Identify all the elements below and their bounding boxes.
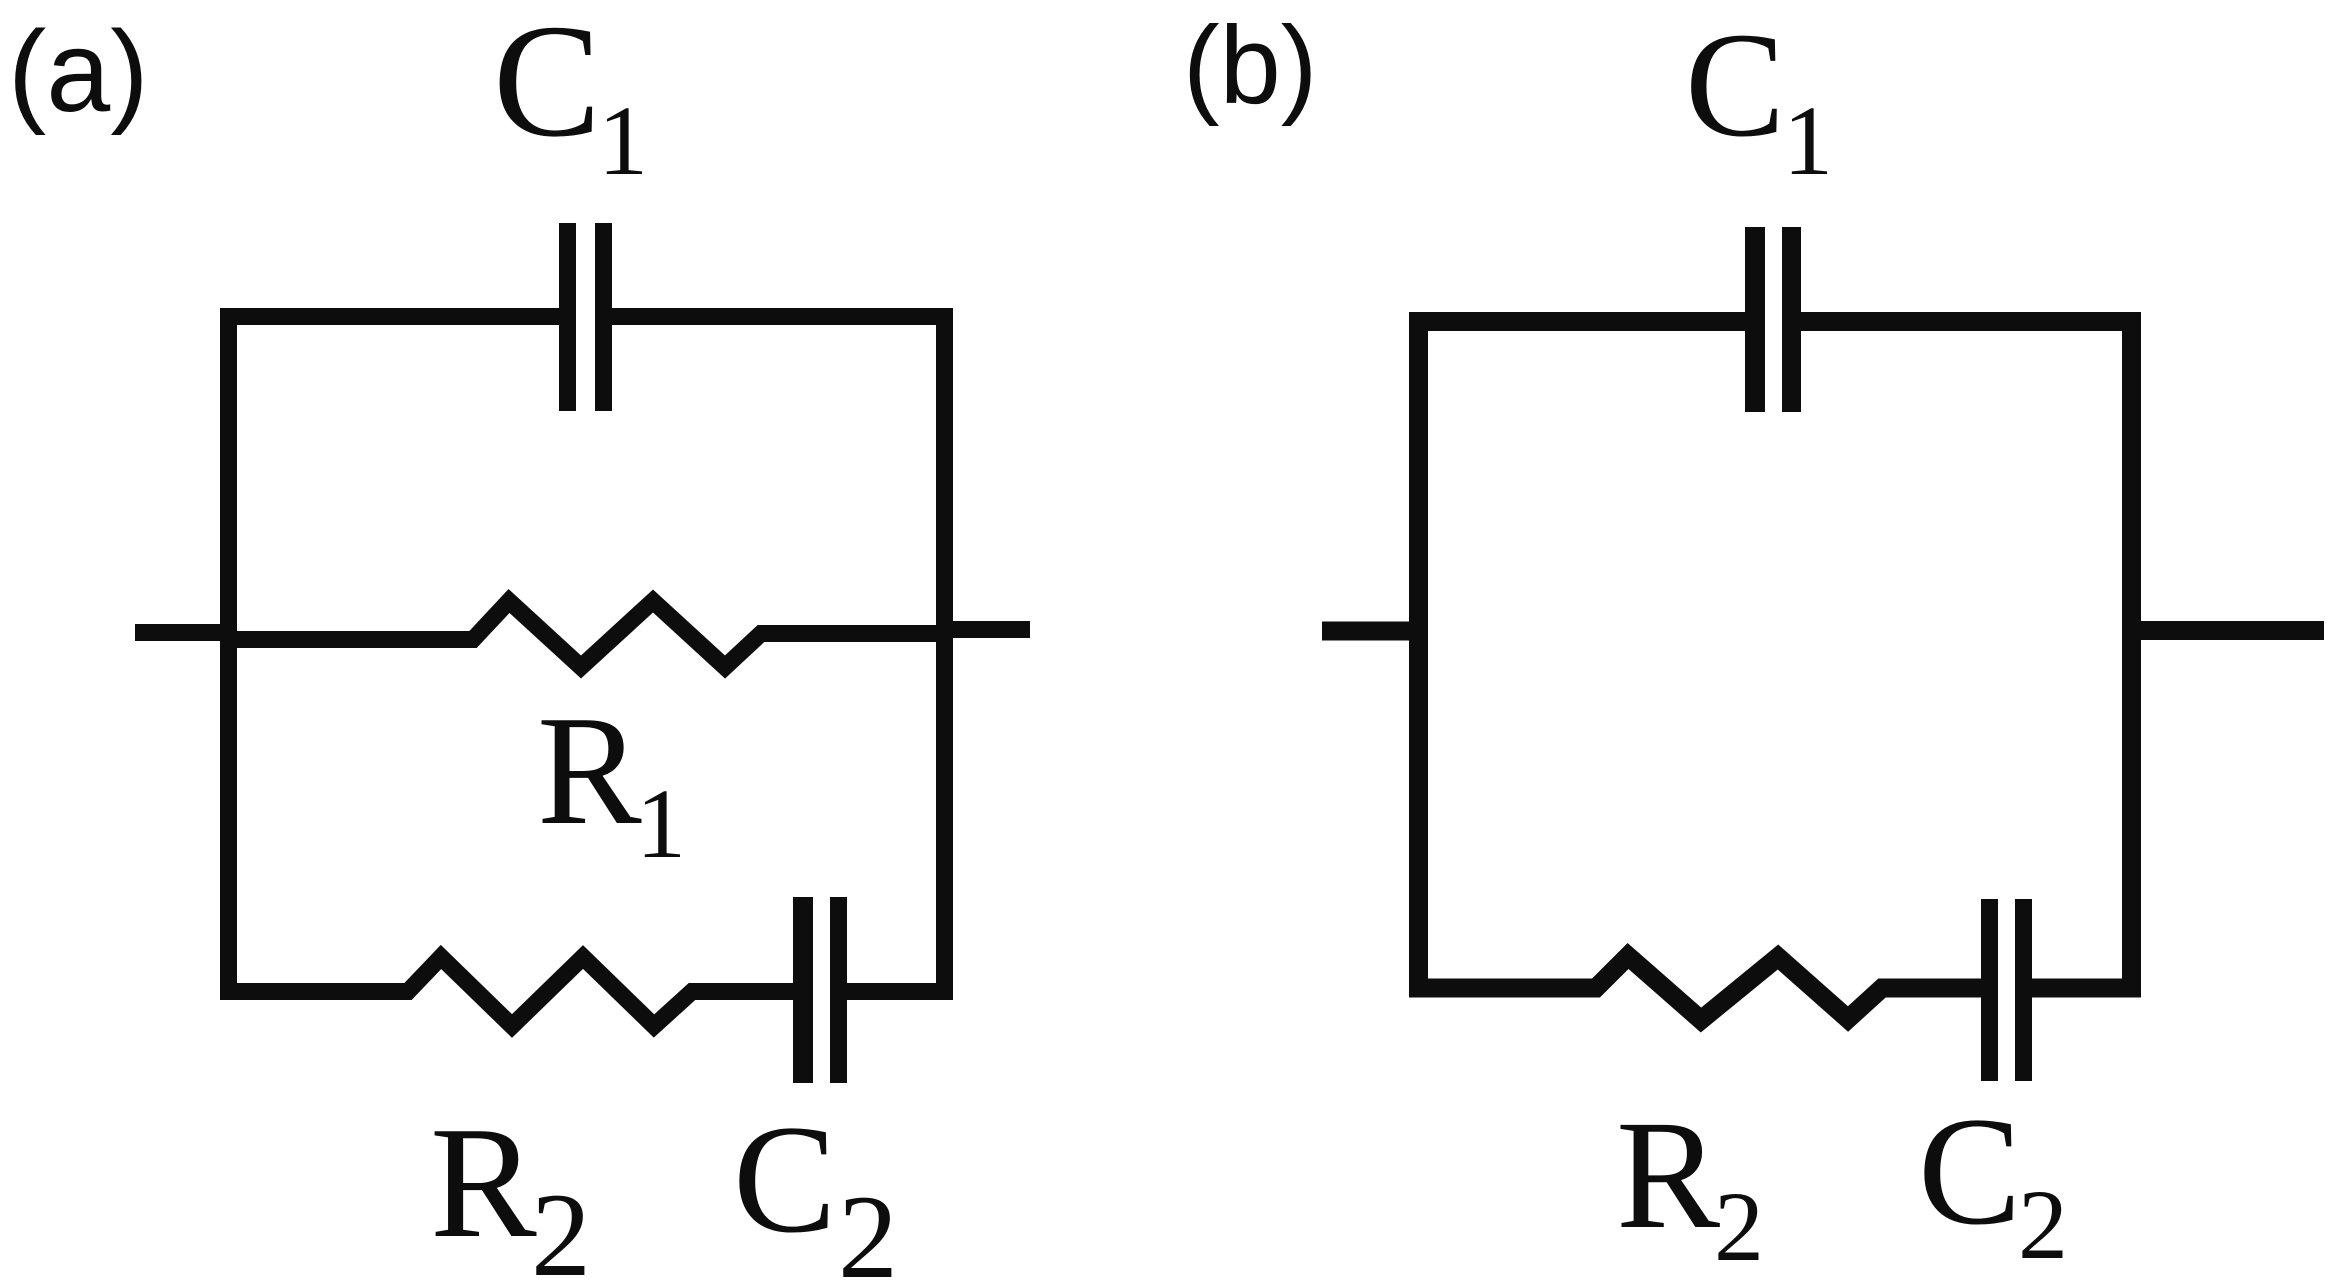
wire: circuit a right vertical branch with corners, top and bottom segments [612,317,945,992]
wire: circuit b left external lead [1322,622,1428,641]
svg-text:C: C [493,0,601,171]
resistor R2 label (circuit a) [430,1093,591,1288]
svg-text:R: R [537,683,642,857]
wire: circuit a right external lead [940,621,1030,638]
capacitor C2 (circuit b) left plate [1981,899,1998,1081]
capacitor C1 value label (circuit b) [1685,2,1833,196]
svg-text:C: C [1685,2,1785,168]
svg-text:R: R [1616,1088,1720,1261]
capacitor C2 label (circuit a) [733,1093,898,1288]
svg-text:2: 2 [2018,1169,2068,1280]
capacitor C2 (circuit a) left plate [793,897,813,1083]
svg-text:C: C [733,1093,836,1265]
svg-text:R: R [430,1093,537,1271]
resistor R2 label (circuit b) [1616,1088,1764,1282]
wire: circuit a left external lead [135,624,236,641]
svg-text:1: 1 [1783,85,1833,196]
wire: circuit a middle branch with resistor R1 zigzag [228,601,948,667]
svg-text:1: 1 [636,768,686,879]
capacitor C1 value label (circuit a) [493,0,648,196]
svg-text:1: 1 [598,85,648,196]
resistor R1 label [537,683,686,879]
svg-text:(b): (b) [1183,4,1317,127]
wire: circuit b right external lead [2122,621,2324,640]
wire: circuit b right vertical branch with corners, top and bottom segments [1801,322,2132,989]
svg-text:(a): (a) [8,8,149,136]
svg-text:2: 2 [838,1170,898,1288]
capacitor C1 (circuit b) right plate [1782,227,1801,412]
capacitor C2 (circuit a) right plate [830,897,847,1083]
svg-text:2: 2 [531,1168,591,1288]
capacitor C1 (circuit a) left plate [559,223,576,411]
svg-text:C: C [1918,1085,2021,1257]
capacitor C1 (circuit a) right plate [595,223,612,411]
wire: circuit a left vertical branch with top-left corner, bottom branch and resistor R2 zigzag [229,317,794,1027]
svg-text:2: 2 [1714,1171,1764,1282]
capacitor C2 label (circuit b) [1918,1085,2068,1280]
wire: circuit b left vertical branch with top-left corner, bottom branch and resistor R2 zigzag [1419,322,1982,1021]
capacitor C2 (circuit b) right plate [2015,899,2032,1081]
capacitor C1 (circuit b) left plate [1745,227,1765,412]
